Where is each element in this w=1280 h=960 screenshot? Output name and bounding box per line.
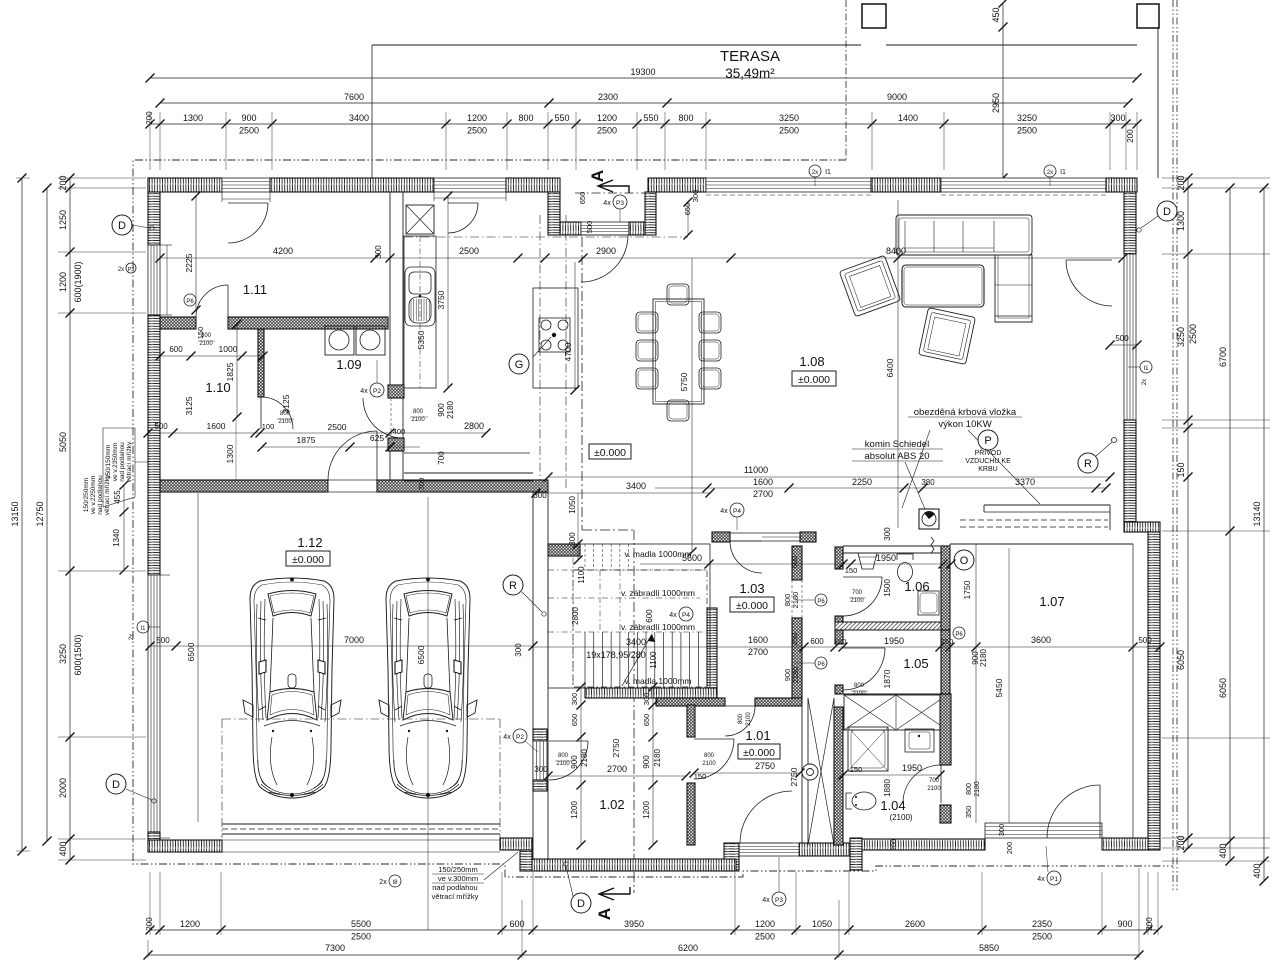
- svg-text:2500: 2500: [1017, 126, 1037, 136]
- svg-text:6400: 6400: [885, 358, 895, 377]
- dim y488 living bottom: [655, 487, 1106, 489]
- svg-text:13150: 13150: [10, 501, 20, 526]
- top extension lines: [149, 112, 151, 170]
- svg-text:200: 200: [58, 175, 68, 190]
- svg-text:G: G: [515, 359, 524, 371]
- dimension left 13150: [21, 178, 23, 851]
- svg-text:200: 200: [1176, 835, 1186, 850]
- marker P2 kitchen door: [370, 383, 384, 397]
- svg-text:625: 625: [370, 433, 384, 443]
- svg-text:±0.000: ±0.000: [798, 374, 830, 386]
- svg-text:1825: 1825: [225, 362, 235, 381]
- dim y433 line: [148, 432, 486, 434]
- shaft fan symbol: [802, 764, 818, 780]
- svg-text:650: 650: [683, 203, 692, 216]
- svg-text:150/150mm: 150/150mm: [105, 445, 112, 479]
- svg-text:P: P: [984, 435, 991, 447]
- marker P2 garage door: [513, 729, 527, 743]
- svg-text:v. madla 1000mm: v. madla 1000mm: [625, 676, 692, 686]
- svg-text:2x: 2x: [1142, 379, 1148, 385]
- svg-text:150: 150: [850, 765, 863, 774]
- pier corridor door lower: [388, 438, 404, 451]
- svg-text:6500: 6500: [416, 645, 426, 664]
- porch width dim: [583, 261, 731, 263]
- svg-text:2900: 2900: [596, 246, 616, 256]
- svg-text:2300: 2300: [598, 92, 618, 102]
- window top wall 1.11 french door: [222, 178, 270, 192]
- wall bathroom zone top: [843, 545, 941, 547]
- dim 5750 living: [691, 258, 693, 552]
- wall corridor west lower: [389, 451, 391, 480]
- sofa horizontal part: [896, 215, 1032, 255]
- kitchen counter: [404, 236, 436, 388]
- svg-text:2180: 2180: [580, 749, 589, 767]
- washbasin 1.06: [858, 553, 877, 569]
- wall 1.04 north / tub wall: [843, 693, 947, 695]
- svg-text:1250: 1250: [58, 210, 68, 230]
- svg-text:7600: 7600: [344, 92, 364, 102]
- marker P4 stairs bottom: [679, 607, 693, 621]
- wall corridor 1.01 top east: [755, 698, 802, 706]
- marker D bottom center: [571, 893, 591, 913]
- svg-text:2x: 2x: [379, 879, 387, 886]
- svg-text:VZDUCHU KE: VZDUCHU KE: [965, 458, 1011, 465]
- svg-text:2100: 2100: [850, 598, 864, 604]
- svg-text:2500: 2500: [467, 126, 487, 136]
- wall corridor 1.01 top: [656, 698, 725, 706]
- svg-text:1600: 1600: [748, 635, 768, 645]
- svg-text:3250: 3250: [779, 113, 799, 123]
- door arc 1.02-1.01: [694, 739, 734, 779]
- marker O 1.07: [954, 550, 974, 570]
- dim 4700 island: [574, 262, 576, 390]
- svg-text:6200: 6200: [678, 943, 698, 953]
- svg-text:2100: 2100: [278, 419, 292, 425]
- svg-text:2x: 2x: [129, 634, 135, 640]
- label living level: [589, 444, 631, 459]
- svg-text:PŘÍVOD: PŘÍVOD: [975, 448, 1002, 457]
- marker P6 hall2: [815, 657, 827, 669]
- svg-text:600: 600: [790, 556, 799, 569]
- svg-text:1000: 1000: [219, 344, 238, 354]
- svg-text:I1: I1: [825, 169, 831, 176]
- dim y490 stairs top: [536, 492, 710, 494]
- marker P6 1.11: [184, 294, 196, 306]
- toilet 1.04: [852, 792, 876, 810]
- svg-text:1950: 1950: [902, 763, 922, 773]
- dining table: [653, 299, 704, 404]
- svg-text:2180: 2180: [974, 781, 981, 797]
- wall exterior bottom center east: [799, 843, 850, 856]
- svg-text:2x: 2x: [812, 170, 818, 176]
- svg-text:300: 300: [533, 491, 547, 500]
- marker P3 left small: [126, 263, 136, 273]
- svg-text:150/250mm: 150/250mm: [438, 865, 478, 874]
- glazed partition hall-living west pier: [712, 532, 730, 542]
- window top wall living big: [706, 178, 871, 192]
- svg-text:1050: 1050: [812, 919, 832, 929]
- svg-text:1.12: 1.12: [297, 535, 322, 550]
- wall garage house divider east part: [377, 480, 548, 492]
- marker P3 entrance: [613, 195, 627, 209]
- svg-text:1050: 1050: [568, 496, 577, 514]
- dim 11000: [548, 476, 1110, 478]
- svg-text:650: 650: [642, 714, 651, 727]
- wall below stairs: [707, 608, 717, 688]
- svg-text:1100: 1100: [649, 651, 658, 669]
- svg-text:300: 300: [374, 245, 383, 259]
- svg-text:2750: 2750: [611, 738, 621, 757]
- insulation boundary dashed: [133, 160, 1173, 877]
- window top wall kitchen corridor: [434, 178, 506, 192]
- wall 1.05 west pier: [835, 630, 843, 644]
- dim y647 middle: [533, 646, 1160, 648]
- wall exterior left middle: [148, 315, 160, 575]
- dim 1.01 left chain: [652, 687, 654, 845]
- wall exterior bottom garage east piece: [500, 838, 532, 850]
- svg-text:500: 500: [585, 221, 594, 234]
- svg-text:1100: 1100: [577, 566, 586, 584]
- svg-text:13140: 13140: [1252, 501, 1262, 526]
- svg-text:3400: 3400: [626, 481, 646, 491]
- stove 1.09 left: [325, 326, 354, 355]
- window left wall room 1.11: [148, 245, 160, 315]
- dim 2750 1.01: [694, 772, 800, 774]
- wall 1.06 west upper: [835, 547, 843, 569]
- svg-text:P6: P6: [817, 599, 825, 605]
- bottom extension lines: [149, 872, 151, 935]
- dim line y258: [160, 257, 1123, 259]
- svg-text:2250: 2250: [852, 477, 872, 487]
- wall stairs south: [585, 688, 717, 698]
- fridge box: [406, 205, 434, 234]
- svg-text:3250: 3250: [1176, 327, 1186, 347]
- door opening garage 1.02: [533, 741, 547, 780]
- wall 1.06 1.05 divider: [835, 622, 947, 630]
- dimension chain right middle: [1229, 188, 1231, 861]
- svg-text:7300: 7300: [325, 943, 345, 953]
- wall 1.10 1.09 divider: [258, 329, 264, 397]
- marker D top left: [112, 215, 132, 235]
- svg-text:P1: P1: [1050, 876, 1058, 883]
- door arc french 1.01: [740, 791, 792, 843]
- car 2 garage: [379, 578, 477, 798]
- svg-text:nad podlahou: nad podlahou: [97, 475, 104, 515]
- bathtub 1.05: [844, 695, 947, 730]
- svg-text:2100: 2100: [556, 761, 570, 767]
- dim kitchen interior y356: [160, 355, 263, 357]
- svg-text:±0.000: ±0.000: [292, 554, 324, 566]
- svg-text:1950: 1950: [876, 553, 896, 563]
- chair top: [667, 284, 689, 305]
- svg-text:300: 300: [642, 693, 651, 706]
- svg-text:2350: 2350: [1032, 919, 1052, 929]
- wall exterior bottom garage west piece: [148, 840, 222, 852]
- wall corridor west upper: [389, 192, 391, 385]
- stairs walk line: [622, 634, 652, 686]
- svg-text:450: 450: [991, 7, 1001, 22]
- svg-text:absolut ABS 20: absolut ABS 20: [865, 451, 930, 462]
- svg-text:1300: 1300: [1176, 211, 1186, 231]
- svg-text:P2: P2: [516, 734, 524, 741]
- stairs void dashed lines: [548, 569, 707, 571]
- wall piece bottom center: [724, 843, 739, 871]
- dim y564 bathroom top: [640, 563, 951, 565]
- door opening 1.01 top: [724, 698, 726, 706]
- svg-text:4x: 4x: [360, 388, 368, 395]
- svg-text:2180: 2180: [446, 401, 455, 419]
- svg-text:2500: 2500: [328, 422, 347, 432]
- svg-text:6050: 6050: [1218, 678, 1228, 698]
- svg-text:D: D: [1163, 206, 1171, 218]
- svg-text:2000: 2000: [58, 778, 68, 798]
- dim 2225 vertical: [195, 196, 197, 310]
- wall exterior left bottom stub: [148, 832, 160, 844]
- svg-text:300: 300: [883, 527, 892, 541]
- svg-text:P3: P3: [128, 267, 135, 273]
- door garage to 1.02 jamb bottom: [533, 780, 547, 791]
- wall exterior top west 3: [506, 178, 560, 192]
- dim 3750 corridor: [447, 196, 449, 388]
- wall exterior top east 3: [1106, 178, 1137, 192]
- dimension right outer 13140: [1263, 188, 1265, 881]
- svg-text:300: 300: [514, 643, 523, 657]
- svg-text:3125: 3125: [184, 396, 194, 415]
- wall exterior right upper 2: [1124, 420, 1136, 522]
- kitchen axis dash lines: [539, 215, 541, 490]
- svg-text:2500: 2500: [351, 932, 371, 942]
- wall bathrooms east: [941, 546, 950, 630]
- svg-text:300: 300: [417, 478, 426, 491]
- svg-text:200: 200: [1145, 917, 1154, 931]
- wall shaft west: [801, 698, 803, 845]
- svg-text:D: D: [577, 898, 585, 910]
- wall 1.05 east piece: [941, 630, 950, 694]
- svg-text:3400: 3400: [349, 113, 369, 123]
- svg-text:5500: 5500: [351, 919, 371, 929]
- dimension 450/2950 top right: [999, 0, 1008, 8]
- svg-text:3250: 3250: [1017, 113, 1037, 123]
- svg-text:1300: 1300: [225, 444, 235, 463]
- svg-text:I8: I8: [392, 880, 398, 886]
- kitchen island: [533, 288, 578, 388]
- svg-text:300: 300: [568, 532, 577, 546]
- svg-text:100: 100: [262, 422, 275, 431]
- svg-text:D: D: [118, 220, 126, 232]
- svg-text:P4: P4: [733, 508, 741, 515]
- wall exterior right lower: [1148, 532, 1160, 850]
- door arc corridor-kitchen: [363, 398, 403, 438]
- svg-text:3750: 3750: [436, 290, 446, 309]
- porch entry door glazing: [581, 222, 629, 235]
- svg-text:větrací mřížky: větrací mřížky: [126, 441, 133, 482]
- svg-text:2500: 2500: [239, 126, 259, 136]
- svg-text:200: 200: [1176, 175, 1186, 190]
- door arc 1.01 entry: [725, 706, 755, 736]
- svg-text:1750: 1750: [962, 580, 972, 599]
- svg-text:O: O: [960, 555, 969, 567]
- svg-text:5850: 5850: [979, 943, 999, 953]
- wall 1.05 west lower: [835, 685, 843, 694]
- svg-text:1300: 1300: [183, 113, 203, 123]
- stairs outline: [548, 544, 710, 688]
- svg-text:600(1500): 600(1500): [73, 634, 83, 675]
- svg-text:1200: 1200: [180, 919, 200, 929]
- svg-text:2700: 2700: [607, 764, 627, 774]
- wall exterior right upper 1: [1124, 192, 1136, 254]
- toilet 1.06: [898, 563, 913, 582]
- door garage to 1.02 jamb top: [533, 729, 547, 741]
- svg-text:výkon 10KW: výkon 10KW: [938, 419, 991, 430]
- svg-text:8400: 8400: [886, 246, 906, 256]
- fireplace dashed: [960, 519, 1108, 521]
- marker G: [509, 354, 529, 374]
- svg-text:4x: 4x: [720, 508, 728, 515]
- svg-text:1880: 1880: [883, 779, 892, 797]
- svg-text:1.04: 1.04: [880, 798, 905, 813]
- marker P6 hall1: [815, 594, 827, 606]
- svg-text:1200: 1200: [570, 801, 579, 819]
- svg-text:1875: 1875: [297, 435, 316, 445]
- svg-text:R: R: [509, 580, 517, 592]
- svg-text:1200: 1200: [597, 113, 617, 123]
- svg-text:2100: 2100: [746, 712, 752, 726]
- svg-text:P3: P3: [616, 200, 624, 207]
- wall porch back west piece: [560, 222, 581, 235]
- svg-text:800: 800: [201, 333, 212, 339]
- marker P privod: [978, 430, 998, 450]
- svg-text:v. zábradlí 1000mm: v. zábradlí 1000mm: [621, 622, 695, 632]
- window left wall garage: [148, 575, 160, 838]
- dimension chain top 7600/2300/9000: [160, 102, 1128, 104]
- stairs guard dashed rect: [573, 570, 707, 687]
- svg-text:R: R: [1084, 458, 1092, 470]
- wall 1.06 west lower pier: [835, 616, 843, 626]
- dim 1825: [236, 324, 238, 417]
- dimension chain right inner: [1187, 178, 1189, 848]
- svg-text:2500: 2500: [779, 126, 799, 136]
- door opening garage divider: [328, 480, 377, 492]
- svg-text:300: 300: [570, 693, 579, 706]
- chimney box: [919, 509, 939, 529]
- svg-text:2500: 2500: [755, 932, 775, 942]
- svg-text:400: 400: [58, 841, 68, 856]
- marker D bottom left: [106, 774, 126, 794]
- svg-text:200: 200: [145, 111, 154, 125]
- svg-text:1.08: 1.08: [799, 354, 824, 369]
- door arc 1.05: [843, 648, 885, 690]
- svg-text:150: 150: [845, 566, 858, 575]
- svg-text:P6: P6: [817, 662, 825, 668]
- door arc garage-1.02: [549, 741, 588, 780]
- window right wall living: [1124, 254, 1136, 420]
- svg-text:1.11: 1.11: [243, 282, 267, 297]
- svg-text:1200: 1200: [642, 801, 651, 819]
- wall 1.02 1.01 divider lower: [687, 783, 695, 845]
- svg-text:4x: 4x: [503, 734, 511, 741]
- svg-text:1200: 1200: [467, 113, 487, 123]
- svg-text:9000: 9000: [887, 92, 907, 102]
- stove 1.09 right: [356, 326, 385, 355]
- marker I1 left garage: [137, 621, 149, 633]
- svg-text:2180: 2180: [653, 749, 662, 767]
- svg-text:2700: 2700: [748, 647, 768, 657]
- svg-text:200: 200: [1005, 842, 1014, 855]
- svg-text:19x178,95/280: 19x178,95/280: [586, 650, 646, 660]
- svg-text:v. zábradlí 1000mm: v. zábradlí 1000mm: [621, 588, 695, 598]
- svg-text:5750: 5750: [679, 372, 689, 391]
- svg-text:obezděná krbová vložka: obezděná krbová vložka: [914, 407, 1017, 418]
- door arc 1.06: [843, 577, 882, 616]
- svg-text:nad podlahou: nad podlahou: [432, 883, 477, 892]
- svg-text:800: 800: [280, 411, 291, 417]
- svg-text:2950: 2950: [991, 93, 1001, 113]
- svg-text:ve v.2250mm: ve v.2250mm: [90, 476, 97, 515]
- wall exterior top east 2: [871, 178, 941, 192]
- glazed partition hall-living east pier: [800, 532, 816, 542]
- svg-text:2100: 2100: [927, 786, 941, 792]
- chair left 3: [636, 368, 658, 389]
- svg-text:650: 650: [570, 714, 579, 727]
- wall garage house divider: [160, 480, 328, 492]
- svg-text:1600: 1600: [207, 421, 226, 431]
- svg-text:800: 800: [854, 683, 865, 689]
- svg-text:900: 900: [241, 113, 256, 123]
- marker P4 hall top: [730, 503, 744, 517]
- svg-text:700: 700: [852, 590, 863, 596]
- left extension lines: [58, 177, 146, 179]
- room 1.07 outline top: [950, 543, 1133, 545]
- terasa pillar left: [862, 4, 886, 28]
- svg-text:200: 200: [891, 839, 898, 851]
- svg-text:5600: 5600: [682, 553, 702, 563]
- svg-text:455: 455: [113, 490, 122, 504]
- svg-text:I1: I1: [1060, 169, 1066, 176]
- door arc 1.11 south: [196, 285, 228, 317]
- marker I1 top window2: [1044, 165, 1056, 177]
- car body definition: [0, 0, 1, 1]
- garage sectional door: [222, 823, 500, 825]
- coffee table: [902, 265, 984, 307]
- marker D top right: [1157, 201, 1177, 221]
- wall exterior bottom east 2: [862, 839, 985, 850]
- dim 1.02 left chain: [580, 687, 582, 845]
- svg-text:1.09: 1.09: [336, 357, 361, 372]
- svg-text:1.05: 1.05: [903, 656, 928, 671]
- washbasin 1.04: [905, 729, 934, 752]
- svg-text:800: 800: [678, 113, 693, 123]
- svg-text:KRBU: KRBU: [978, 466, 997, 473]
- svg-text:900: 900: [642, 755, 651, 769]
- svg-text:2500: 2500: [459, 246, 479, 256]
- svg-text:6050: 6050: [1176, 650, 1186, 670]
- svg-text:500: 500: [1115, 334, 1129, 343]
- dim 6400 living: [897, 200, 899, 528]
- svg-text:2800: 2800: [571, 607, 580, 625]
- shower 1.04: [848, 727, 888, 771]
- terasa section dash line: [845, 0, 847, 160]
- svg-text:1950: 1950: [884, 636, 904, 646]
- sofa chaise part: [995, 255, 1032, 322]
- svg-text:2500: 2500: [597, 126, 617, 136]
- svg-text:550: 550: [643, 113, 658, 123]
- svg-text:2180: 2180: [791, 667, 800, 684]
- svg-text:2500: 2500: [1188, 324, 1198, 344]
- wall 1.04 1.07 pier: [940, 805, 951, 823]
- svg-text:800: 800: [518, 113, 533, 123]
- wall exterior top west 2: [270, 178, 434, 192]
- svg-text:1500: 1500: [883, 579, 892, 597]
